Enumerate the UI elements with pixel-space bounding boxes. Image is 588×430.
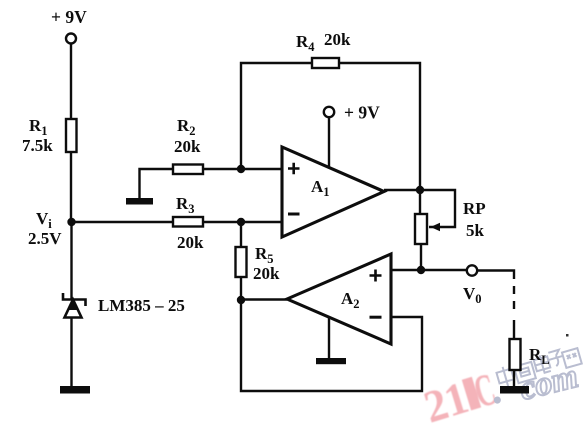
svg-text:20k: 20k (177, 233, 204, 252)
wire junction up to R4 (241, 63, 312, 169)
wire RP bottom to node (420, 244, 422, 270)
svg-text:R3: R3 (176, 194, 195, 216)
potentiometer RP body (415, 214, 427, 244)
ground (R2 left end) (126, 198, 153, 205)
resistor R5 (236, 247, 247, 277)
+9V terminal circle (66, 34, 76, 44)
svg-text:+ 9V: + 9V (51, 7, 87, 27)
wire A2 output to node (241, 298, 287, 300)
ground (A2) (316, 358, 346, 364)
wire A2 ground stem (328, 318, 330, 359)
node A2 output junction (237, 296, 245, 304)
svg-text:20k: 20k (324, 30, 351, 49)
watermark 21IC. (418, 363, 502, 430)
wire A2 feedback loop (241, 300, 422, 391)
svg-text:R1: R1 (29, 116, 48, 138)
zener diode LM385-2.5 (63, 293, 86, 318)
node Vi junction (67, 218, 75, 226)
wire R4 to output node (339, 63, 420, 190)
char wang (562, 348, 582, 368)
svg-text:RP: RP (463, 199, 486, 218)
wire ground to R2 (140, 169, 174, 198)
char guo (514, 362, 536, 383)
wire terminal to R1 (70, 44, 72, 120)
RP wiper arrowhead (431, 223, 441, 231)
+9V terminal of A1 (324, 107, 334, 117)
wire A2 + input to node (391, 269, 421, 271)
resistor R4 (312, 58, 339, 68)
op-amp A2 (287, 254, 391, 344)
node junction R3/R5 (237, 218, 245, 226)
A2 + input sign (370, 270, 382, 282)
wire zener to ground (70, 317, 72, 386)
svg-text:LM385 – 25: LM385 – 25 (98, 296, 185, 315)
resistor R2 (173, 165, 203, 175)
resistor R1 (66, 119, 77, 152)
wire node to V0 terminal (421, 269, 467, 271)
ink speck (566, 334, 569, 337)
node A1 output junction (416, 186, 424, 194)
wire R2 to A1 + input (203, 168, 282, 170)
wire to RL top (513, 320, 515, 339)
wire R5 top (240, 222, 242, 247)
svg-text:20k: 20k (253, 264, 280, 283)
svg-text:+ 9V: + 9V (344, 103, 380, 123)
svg-text:V0: V0 (463, 284, 482, 306)
op-amp A1 (282, 147, 384, 237)
svg-text:RL: RL (529, 345, 550, 367)
svg-text:R4: R4 (296, 32, 315, 54)
wire Vi node down to zener (70, 222, 72, 299)
svg-text:Vi: Vi (36, 209, 52, 231)
char zi (547, 349, 565, 367)
resistor R3 (173, 217, 203, 227)
svg-text:R2: R2 (177, 116, 196, 138)
svg-text:2.5V: 2.5V (28, 229, 62, 248)
node RP bottom junction (417, 266, 425, 274)
wire RL to ground (513, 370, 515, 386)
wire R1 to Vi node (70, 152, 72, 222)
wire Vi node to R3 (72, 221, 174, 223)
ground (RL) (500, 386, 529, 394)
A2 - input sign (370, 316, 382, 319)
char zhong (495, 365, 515, 389)
resistor RL (510, 339, 521, 370)
svg-text:5k: 5k (466, 221, 485, 240)
watermark .com script (488, 373, 505, 411)
svg-text:7.5k: 7.5k (22, 136, 53, 155)
wire A1 output (384, 190, 455, 227)
terminal V0 circle (467, 265, 477, 275)
node junction R2/R4 (237, 165, 245, 173)
wire R5 bottom to node (240, 277, 242, 300)
A1 - input sign (288, 213, 300, 216)
ground (left, below zener) (60, 386, 90, 394)
wire +9V to A1 (328, 117, 330, 167)
wire R3 to A1 - input (203, 221, 282, 223)
char dian (533, 353, 551, 374)
svg-text:R5: R5 (255, 244, 274, 266)
A1 + input sign (288, 163, 300, 175)
svg-text:20k: 20k (174, 137, 201, 156)
wire node to RP top (419, 190, 421, 214)
wire dashed to RL (513, 286, 515, 316)
watermark Chinese characters (drawn) (495, 348, 581, 389)
wire V0 to corner (477, 271, 514, 280)
